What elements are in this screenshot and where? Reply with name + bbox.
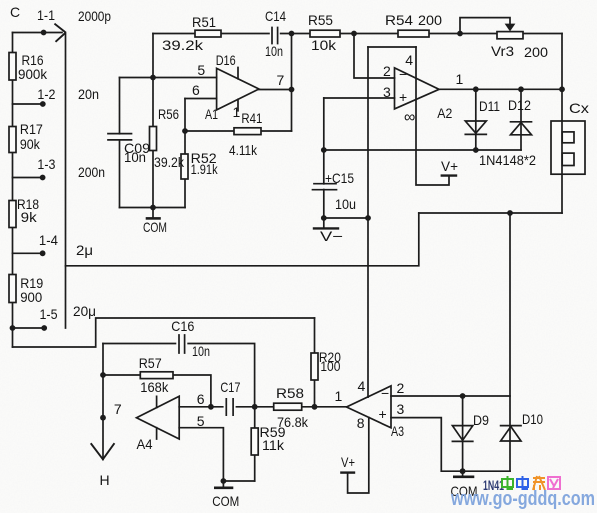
svg-text:R51: R51 — [192, 14, 216, 30]
svg-text:7: 7 — [114, 401, 122, 417]
svg-text:R58: R58 — [276, 385, 304, 401]
wire D9 vertical — [462, 396, 464, 471]
junction R57 pin6 — [208, 404, 214, 410]
svg-text:200n: 200n — [78, 164, 105, 180]
resistor R55 — [310, 30, 340, 37]
capacitor C15 — [313, 184, 337, 190]
power terminal V- — [314, 227, 338, 229]
svg-text:1-2: 1-2 — [37, 86, 55, 102]
wire R57 row — [103, 375, 211, 407]
svg-text:V+: V+ — [441, 158, 458, 174]
resistor R20 — [311, 353, 318, 380]
wire y471 row — [441, 470, 510, 472]
wire A4 pin6 to A3 pin1 row — [179, 406, 346, 408]
svg-text:A1: A1 — [205, 106, 218, 122]
ground COM under C09 — [147, 217, 160, 220]
svg-text:6: 6 — [197, 391, 205, 407]
svg-text:6: 6 — [192, 82, 200, 98]
svg-text:−: − — [399, 66, 407, 82]
node 1-2 — [40, 101, 46, 107]
svg-text:10k: 10k — [311, 37, 337, 53]
watermark glyph orange — [533, 476, 545, 490]
svg-text:1.91k: 1.91k — [191, 161, 219, 177]
svg-text:D16: D16 — [216, 52, 236, 68]
svg-text:+: + — [399, 89, 407, 105]
power terminal V+ A2 — [442, 174, 456, 176]
wire R59 vertical — [254, 407, 256, 481]
potentiometer Vr3 — [497, 24, 523, 39]
junction R57 left — [100, 372, 106, 378]
node 1-5 — [41, 325, 47, 331]
wire A2 V+ branch — [416, 47, 449, 185]
wire vertical pin3 to C15 — [323, 98, 325, 218]
junction pin3 y150 — [321, 147, 327, 153]
junction D11 bottom — [473, 147, 479, 153]
svg-text:1: 1 — [233, 104, 241, 120]
svg-text:C14: C14 — [265, 8, 286, 24]
junction R54 Vr3 — [457, 31, 463, 37]
svg-text:100: 100 — [320, 358, 340, 374]
svg-text:20n: 20n — [78, 86, 99, 102]
svg-text:5: 5 — [197, 413, 205, 429]
resistor R41 — [234, 128, 261, 135]
svg-text:+C15: +C15 — [325, 170, 354, 186]
svg-text:C17: C17 — [220, 379, 240, 395]
wire A1 output pin7 — [259, 89, 292, 91]
svg-text:2000p: 2000p — [78, 8, 111, 24]
wire C16 row — [103, 344, 255, 407]
svg-text:COM: COM — [212, 493, 239, 509]
svg-text:R17: R17 — [20, 121, 43, 137]
svg-text:1N4148*2: 1N4148*2 — [479, 152, 536, 168]
wire 1-1 contact row — [13, 32, 63, 34]
junction D9 top — [460, 393, 466, 399]
wire A1 pin5 row — [120, 77, 217, 79]
svg-text:V−: V− — [320, 228, 343, 244]
junction Cx top — [559, 86, 565, 92]
wire R41 feedback row — [185, 130, 292, 132]
capacitor Cx box — [551, 121, 585, 174]
svg-text:2: 2 — [383, 63, 391, 79]
svg-text:C16: C16 — [171, 318, 194, 334]
wire A2 supply box top — [368, 46, 416, 48]
svg-text:−: − — [381, 385, 389, 401]
wire bottom row y481 — [223, 480, 254, 482]
resistor R16 — [9, 53, 16, 81]
op-amp A2 — [395, 68, 440, 109]
svg-text:www.go-gddq.com: www.go-gddq.com — [450, 488, 595, 510]
resistor R51 — [195, 30, 221, 37]
junction V- vertical — [365, 215, 371, 221]
op-amp A3 — [347, 386, 392, 428]
wire A2 output row — [439, 88, 562, 90]
op-amp A4 — [137, 396, 180, 439]
svg-text:9k: 9k — [21, 209, 38, 225]
junction A4 pin7 — [100, 415, 106, 421]
wire tap 1-5 — [13, 327, 45, 329]
wire R20 vertical — [314, 318, 316, 407]
wire diode bottom row y150 — [324, 149, 521, 151]
junction rail 1-5 — [10, 325, 16, 331]
wire A3 pin3 row — [391, 418, 441, 472]
diode D12 — [511, 122, 532, 135]
junction R55 R54 — [351, 31, 357, 37]
wire COM stub under C09 — [152, 208, 154, 218]
svg-text:900: 900 — [20, 289, 42, 305]
output arrow H — [91, 444, 114, 459]
wire COM stub right — [462, 471, 464, 476]
svg-text:A4: A4 — [137, 436, 153, 452]
svg-text:900k: 900k — [18, 66, 48, 82]
svg-text:7: 7 — [277, 72, 285, 88]
svg-text:1: 1 — [335, 388, 343, 404]
wire top row R51 C14 R55 R54 Vr3 — [153, 33, 562, 35]
diode D10 — [501, 426, 521, 441]
svg-text:90k: 90k — [20, 136, 41, 152]
svg-text:5: 5 — [197, 62, 205, 78]
svg-text:39.2k: 39.2k — [154, 154, 185, 170]
svg-text:168k: 168k — [140, 379, 169, 395]
junction R20 A3 pin1 — [312, 404, 318, 410]
resistor R52 — [181, 154, 188, 179]
svg-text:1: 1 — [456, 71, 464, 87]
svg-text:V+: V+ — [341, 454, 355, 470]
wire C09 branch vertical — [119, 78, 121, 208]
wire A1 pin6 vertical through R52 — [184, 99, 186, 208]
wire switch common to y213 riser — [66, 213, 419, 266]
svg-text:∞: ∞ — [404, 109, 415, 126]
ground COM right — [454, 475, 473, 478]
junction y213 D10 — [507, 210, 513, 216]
svg-text:4.11k: 4.11k — [229, 142, 258, 158]
junction pin5 row — [150, 75, 156, 81]
wire tap 1-2 — [13, 103, 43, 105]
svg-text:Cx: Cx — [569, 100, 589, 116]
wire Vr3 wiper loop — [460, 18, 510, 34]
capacitor C16 — [176, 335, 187, 353]
op-amp A1 — [217, 68, 259, 111]
svg-text:Vr3: Vr3 — [491, 43, 514, 59]
resistor R54 — [398, 30, 429, 37]
wire A1 pin6 row — [185, 98, 217, 100]
svg-text:D9: D9 — [473, 412, 489, 428]
svg-text:2: 2 — [397, 380, 405, 396]
junction D11 top — [473, 86, 479, 92]
capacitor C14 — [270, 28, 280, 44]
junction C14 R55 — [289, 31, 295, 37]
svg-text:D11: D11 — [479, 98, 500, 114]
wire C15 bottom row — [324, 217, 368, 219]
node 1-3 — [40, 175, 46, 181]
svg-text:R56: R56 — [158, 106, 179, 122]
capacitor C09 — [108, 134, 132, 140]
power terminal V+ A3 — [341, 471, 354, 473]
capacitor C17 — [224, 399, 236, 415]
svg-text:D12: D12 — [508, 97, 531, 113]
node 1-1 — [41, 30, 47, 36]
wire rail bottom loop to R20 top — [13, 318, 315, 347]
svg-text:4: 4 — [358, 378, 366, 394]
junction A1 pin7 — [289, 87, 295, 93]
svg-text:A2: A2 — [437, 105, 452, 121]
watermark glyph blue — [517, 476, 528, 489]
wire tap 1-3 — [13, 177, 43, 179]
wire COM row under C09 — [120, 207, 186, 209]
svg-text:10n: 10n — [124, 149, 146, 165]
junction R41 left — [182, 128, 188, 134]
junction C15 bottom — [321, 215, 327, 221]
wire left rail vertical — [12, 33, 14, 348]
wire y213 row — [419, 212, 562, 214]
svg-text:1-4: 1-4 — [39, 232, 58, 248]
wire D11 vertical — [475, 89, 477, 150]
svg-text:3: 3 — [397, 401, 405, 417]
junction D9 bottom COM — [460, 468, 466, 474]
resistor R19 — [9, 275, 16, 303]
junction C16 pin6 — [252, 404, 258, 410]
wire right rail to Cx and y213 — [561, 34, 563, 214]
watermark glyph green — [502, 476, 513, 489]
junction A4 pin5 COM — [221, 478, 227, 484]
svg-text:1-1: 1-1 — [37, 7, 55, 23]
resistor R57 — [140, 372, 173, 379]
resistor R56 — [150, 127, 157, 151]
svg-text:R57: R57 — [139, 355, 162, 371]
svg-text:D10: D10 — [522, 411, 543, 427]
svg-text:2μ: 2μ — [76, 242, 93, 258]
resistor R18 — [9, 201, 16, 228]
svg-text:R41: R41 — [241, 110, 262, 126]
diode D9 — [452, 426, 472, 442]
svg-text:11k: 11k — [262, 437, 285, 453]
svg-text:R55: R55 — [308, 12, 333, 28]
svg-text:8: 8 — [357, 415, 365, 431]
svg-text:R54: R54 — [385, 12, 413, 28]
wire D12 vertical — [520, 89, 522, 150]
wire tap 1-4 — [13, 252, 43, 254]
switch wiper arrow — [55, 24, 65, 41]
svg-text:COM: COM — [143, 219, 167, 235]
wire V- stub — [323, 218, 325, 228]
watermark glyph pink — [548, 477, 560, 489]
svg-text:200: 200 — [524, 44, 548, 60]
wire A4 pin5 — [179, 428, 223, 481]
svg-text:1-3: 1-3 — [37, 156, 55, 172]
svg-text:A3: A3 — [391, 423, 404, 439]
resistor R58 — [274, 403, 302, 410]
diode D11 — [465, 121, 486, 134]
svg-text:C: C — [10, 4, 20, 20]
wire A2 pin3 row — [324, 97, 395, 99]
node 1-4 — [40, 250, 46, 256]
svg-text:+: + — [379, 406, 387, 422]
wire A3 pin2 row — [391, 395, 510, 397]
wire vertical from R51 row to R56 COM — [152, 34, 154, 208]
svg-text:1-5: 1-5 — [40, 306, 58, 322]
wire A4 output vertical — [102, 344, 104, 460]
svg-text:3: 3 — [383, 84, 391, 100]
svg-text:200: 200 — [418, 12, 442, 28]
wire vertical C14 to R41 — [291, 34, 293, 132]
ground COM bottom left — [215, 486, 232, 489]
wire D10 vertical from y213 — [509, 213, 511, 471]
wire switch common vertical — [65, 33, 67, 329]
svg-text:H: H — [100, 472, 110, 488]
junction D12 top — [518, 86, 524, 92]
svg-text:10n: 10n — [192, 343, 210, 359]
svg-text:20μ: 20μ — [73, 303, 96, 319]
svg-text:10n: 10n — [265, 43, 283, 59]
wire A2 pin2 from R55 junction — [354, 34, 395, 79]
svg-text:39.2k: 39.2k — [162, 37, 204, 53]
junction COM row under C09 — [150, 205, 156, 211]
svg-text:10u: 10u — [335, 196, 356, 212]
wire V- long vertical A2 to A3 pin4 — [367, 47, 369, 397]
wire A3 pin8 to V+ — [348, 418, 369, 494]
resistor R17 — [9, 127, 16, 153]
resistor R59 — [251, 428, 258, 455]
wire COM stub bottom left — [222, 481, 224, 487]
